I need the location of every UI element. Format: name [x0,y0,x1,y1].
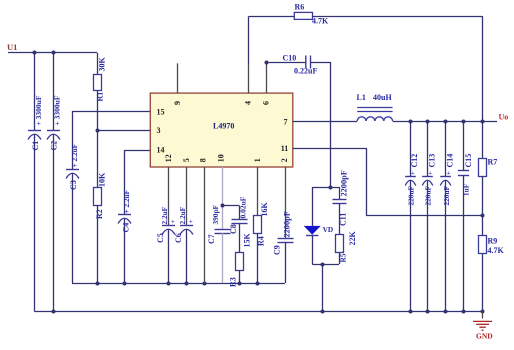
svg-text:5: 5 [182,158,191,162]
svg-text:2200pF: 2200pF [283,211,292,237]
pin 4 stub [248,63,250,93]
svg-text:6: 6 [262,101,271,105]
svg-text:R1: R1 [96,92,105,102]
svg-text:2: 2 [280,158,289,162]
svg-text:C13: C13 [427,154,436,168]
pin 2 label [280,158,289,162]
svg-text:+ 2.2uF: + 2.2uF [122,189,131,213]
junction diode node top [329,186,333,190]
wire pin7 to L1 [293,121,357,123]
svg-text:R7: R7 [488,158,498,167]
svg-text:C3: C3 [69,180,78,190]
wire diode loop top [312,187,339,189]
junction sub-rail/C4 [123,282,127,286]
svg-text:1uF: 1uF [461,183,470,196]
svg-text:220uF: 220uF [406,185,415,205]
svg-text:C7: C7 [207,234,216,244]
svg-text:4: 4 [244,101,253,105]
wire signal-ground sub-rail [72,283,285,285]
junction sub-rail/C6 [185,282,189,286]
inductor L1 40uH [357,93,393,121]
svg-text:U1: U1 [7,42,17,52]
junction bottom rail/C12 [409,310,413,314]
wire pin14 corner [124,150,150,152]
svg-text:R9: R9 [488,237,498,246]
resistor R6 4.7K with top loop wire [249,3,483,122]
junction C7/C8 branch [221,204,225,208]
svg-text:+: + [171,219,175,226]
svg-text:R5: R5 [339,253,348,262]
resistor R9 4.7K (feedback lower) [479,216,505,312]
svg-text:C10: C10 [283,54,297,63]
svg-text:15K: 15K [243,233,252,248]
svg-text:7: 7 [284,118,288,127]
svg-text:VD: VD [323,225,334,234]
junction C1/top rail [33,51,37,55]
pin 11 label [281,144,289,153]
wire diode node to ground rail [322,264,324,312]
svg-text:40uH: 40uH [373,93,392,102]
resistor R3 15K [229,233,252,288]
junction output rail/R7 [481,120,485,124]
node U1 (input supply label) [7,42,17,52]
svg-text:C14: C14 [446,154,455,168]
capacitor C12 220uF [405,121,419,312]
svg-text:16K: 16K [260,202,269,217]
capacitor C4 +2.2uF [118,150,131,283]
svg-text:+: + [189,219,193,226]
junction feedback/R7-R9 divider [481,214,485,218]
svg-text:10K: 10K [98,172,107,187]
svg-text:+: + [428,170,432,177]
capacitor C9 2200pF (pin 2) [273,167,294,283]
junction sub-rail/C5 [167,282,171,286]
svg-text:C8: C8 [229,224,238,234]
svg-text:14: 14 [157,146,165,155]
wire diode loop bottom [312,264,339,266]
wire pin15 to C3 [72,111,150,113]
resistor R7 (feedback upper) [479,121,498,216]
svg-text:22K: 22K [348,231,357,246]
svg-text:C4: C4 [121,223,130,233]
junction bottom rail/VD loop [321,310,325,314]
wire bottom ground rail [35,311,484,313]
junction C2/top rail [52,51,56,55]
svg-text:C2: C2 [50,141,59,151]
svg-text:15: 15 [157,108,165,117]
capacitor C2 +3300uF [47,53,62,312]
wire top input rail [8,52,97,54]
resistor R2 10K [94,130,107,283]
junction sub-rail/R3 [238,282,242,286]
pin 1 label [253,158,262,162]
junction C10/pin6 node [265,61,269,65]
capacitor C10 0.22uF [267,54,331,76]
svg-text:1: 1 [253,158,262,162]
pin 15 label [157,108,165,117]
svg-text:C15: C15 [464,154,473,168]
svg-text:4.7K: 4.7K [312,17,329,26]
capacitor C6 2.2uF (pin 5) [174,167,193,283]
svg-text:+ 3300uF: + 3300uF [53,95,62,125]
svg-text:220uF: 220uF [424,185,433,205]
wire output rail to Uo [393,121,497,123]
svg-text:3: 3 [157,126,161,135]
svg-text:C12: C12 [410,154,419,168]
svg-text:10: 10 [217,154,226,162]
junction bottom rail/C2 [52,310,56,314]
junction sub-rail/pin8 [203,282,207,286]
svg-text:C6: C6 [174,233,183,243]
resistor R4 16K (pin 1) [254,167,270,283]
wire pin11 feedback [293,148,483,216]
svg-text:+ 2.2uF: + 2.2uF [70,143,79,167]
junction output rail/C12 [409,120,413,124]
pin 3 label [157,126,161,135]
junction diode loop bottom [321,263,325,267]
svg-text:L4970: L4970 [213,122,234,131]
svg-text:L1: L1 [357,93,366,102]
diode VD (freewheeling) [304,187,333,264]
capacitor C11 2200pF [333,170,349,235]
svg-text:8: 8 [199,158,208,162]
svg-text:9: 9 [173,101,182,105]
svg-text:R2: R2 [95,209,104,219]
junction bottom rail/C13 [426,310,430,314]
svg-text:4.7K: 4.7K [488,246,505,255]
capacitor C8 0.02uF [229,196,248,253]
svg-text:R3: R3 [229,277,238,287]
wire pin4 up to R6 [248,16,250,63]
svg-text:11: 11 [281,144,289,153]
svg-text:0.22uF: 0.22uF [294,67,317,76]
node Uo (output label) [499,113,509,122]
svg-text:390pF: 390pF [211,204,220,224]
svg-text:0.02uF: 0.02uF [238,196,247,218]
junction pin3/R1/R2 node [96,129,100,133]
junction bottom rail/R9 [481,310,485,314]
pin 4 label [244,101,253,105]
capacitor C5 2.2uF (pin 12) [156,167,175,283]
junction output rail/C14 [444,120,448,124]
svg-text:220uF: 220uF [442,185,451,205]
svg-text:R6: R6 [295,3,305,12]
pin 6 label [262,101,271,105]
pin 14 label [157,146,165,155]
svg-text:+ 3300uF: + 3300uF [34,95,43,125]
junction bottom rail/C15 [462,310,466,314]
op-amp U2 L4970 regulator IC body [150,93,292,167]
junction bottom rail/C14 [444,310,448,314]
ground symbol GND [473,312,493,341]
svg-text:+: + [411,170,415,177]
svg-text:C5: C5 [156,233,165,243]
capacitor C1 +3300uF [28,53,43,312]
svg-text:C1: C1 [31,141,40,151]
wire branch to C8 [222,206,240,220]
capacitor C14 220uF [440,121,454,312]
svg-text:GND: GND [476,331,493,340]
capacitor C7 390pF (pin 10) [207,167,231,283]
resistor R1 30K [94,53,107,130]
svg-text:C9: C9 [273,245,282,255]
wire pin3 to R1/R2 node [97,130,150,132]
pin 9 label [173,101,182,105]
junction sub-rail/R4 [256,282,260,286]
capacitor C13 220uF [422,121,436,312]
pin 10 label [217,154,226,162]
resistor R5 22K [336,231,358,265]
svg-text:2.2uF: 2.2uF [160,206,169,224]
junction output rail/C15 [462,120,466,124]
junction sub-rail/R2 [96,282,100,286]
svg-text:12: 12 [164,154,173,162]
svg-text:2.2uF: 2.2uF [178,206,187,224]
capacitor C15 1uF [458,121,473,312]
wire C10 right down to diode node [330,62,332,187]
pin 8 label [199,158,208,162]
pin 12 label [164,154,173,162]
svg-text:+: + [447,170,451,177]
pin 7 label [284,118,288,127]
svg-text:30K: 30K [98,57,107,72]
svg-text:R4: R4 [257,236,266,246]
junction output rail/C13 [426,120,430,124]
pin 6 stub [266,62,268,93]
pin 9 stub (unconnected) [177,63,179,93]
pin 5 label [182,158,191,162]
capacitor C3 +2.2uF [66,111,79,283]
svg-text:Uo: Uo [499,113,509,122]
svg-text:2200pF: 2200pF [340,170,349,196]
wire pin 8 to sub-rail [204,167,206,283]
